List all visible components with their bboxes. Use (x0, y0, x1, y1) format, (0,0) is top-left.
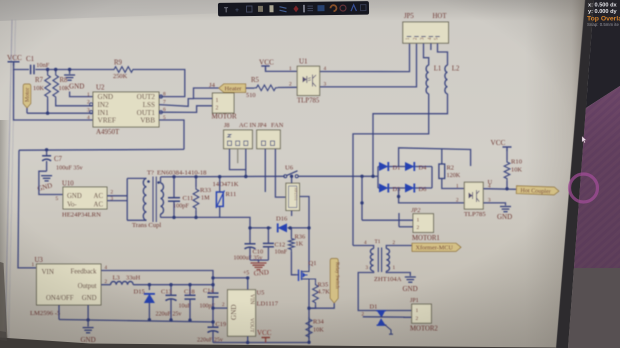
wire (363, 316, 412, 319)
bottom dark bezel edge (0, 262, 8, 348)
wire (386, 271, 410, 276)
wire (353, 94, 429, 246)
wire (244, 149, 247, 179)
svg-text:x: 0.500 dx: x: 0.500 dx (588, 3, 617, 9)
wire (362, 219, 413, 221)
resistor R5 (246, 77, 298, 99)
wire (309, 279, 316, 283)
regulator U3 LM2596 (30, 257, 108, 317)
capacitor C7 (42, 148, 83, 171)
transistor Q1 (296, 260, 317, 282)
op-amp U2 A4950T (87, 84, 166, 137)
wire (386, 246, 412, 249)
diode D15 (134, 285, 155, 322)
wire (127, 219, 146, 221)
wire (126, 178, 128, 220)
wire (161, 175, 285, 178)
mouse cursor (582, 136, 586, 143)
net flag Xformer-MCU (412, 243, 461, 251)
inductor L1 (426, 65, 441, 94)
wire (159, 120, 184, 149)
wire (230, 149, 246, 170)
inductor L3 (111, 275, 141, 285)
triac D1 (362, 303, 394, 334)
purple knob circle (570, 174, 598, 202)
wire (18, 150, 37, 268)
wire (101, 284, 111, 286)
wire (211, 303, 227, 310)
wire (211, 271, 249, 290)
wire (35, 69, 112, 71)
wire (378, 187, 432, 189)
opto-coupler U7 (286, 175, 309, 268)
wire (248, 226, 310, 229)
capacitor C12 (263, 228, 288, 260)
wire (264, 149, 266, 192)
switch U6 (284, 165, 298, 178)
connector JP5 HOT (403, 13, 449, 43)
inductor L2 (445, 65, 460, 94)
wire (59, 318, 215, 324)
wire (377, 167, 379, 189)
wire (14, 70, 94, 121)
wire (483, 203, 505, 206)
wire (360, 201, 363, 220)
net flag Heater (219, 84, 246, 93)
floating toolbar (218, 1, 369, 16)
wire (247, 336, 249, 342)
transformer T1 ZHT104A (364, 239, 402, 283)
connector J4 MOTOR (194, 82, 237, 121)
wire (58, 305, 60, 320)
wire (399, 213, 413, 227)
diode D16 (276, 216, 288, 233)
resistor R10 (504, 159, 522, 189)
wire (19, 148, 184, 151)
wire (378, 166, 432, 168)
wire (27, 112, 93, 115)
net flag Motor (23, 84, 31, 113)
wire (101, 271, 213, 294)
resistor R36 (289, 228, 306, 275)
connector JP4 FAN (257, 122, 284, 149)
diode D1 (379, 162, 400, 172)
connector JP1 MOTOR2 (410, 298, 438, 333)
wire (133, 283, 215, 286)
svg-text:Snap: 0.5mm ite: Snap: 0.5mm ite (587, 22, 620, 27)
wire (320, 43, 417, 87)
wire (159, 106, 212, 113)
wire (237, 149, 239, 164)
power VCC (U1) (259, 59, 297, 72)
right side: monitor bezel and background (556, 0, 594, 348)
resistor R34 (306, 317, 324, 344)
wire (308, 282, 310, 342)
wire (250, 260, 268, 262)
wire (135, 70, 185, 97)
resistor R2 120K (439, 149, 464, 189)
net flag Hot Coupler (516, 186, 559, 196)
connector J8 AC IN (224, 122, 257, 149)
capacitor C1 (26, 55, 50, 74)
capacitor C13 (156, 285, 182, 322)
wire (107, 195, 127, 197)
wire (39, 171, 63, 202)
wire (397, 188, 464, 203)
power VCC (top-left) (7, 54, 22, 66)
chip U10 HE24P34LRN (62, 181, 114, 219)
wire (159, 99, 194, 107)
wire (399, 148, 471, 167)
resistor R7 (33, 68, 50, 113)
wire (107, 200, 127, 202)
transformer T? EN60384-1410-18 (132, 169, 207, 229)
diode D6 (405, 184, 426, 194)
wire (127, 177, 146, 179)
svg-text:+: + (235, 7, 239, 14)
wire (361, 176, 363, 203)
ground (U8) (497, 207, 512, 222)
svg-text:y: 0.000 dy: y: 0.000 dy (588, 9, 617, 15)
HUD text (587, 3, 620, 28)
capacitor C18 (179, 285, 196, 322)
wire (161, 217, 251, 243)
wire (275, 149, 286, 197)
ground (C10/C12) (251, 263, 270, 278)
capacitor C19 (197, 321, 226, 344)
resistor R9 (112, 60, 135, 81)
wire (358, 271, 412, 310)
wire (373, 94, 448, 177)
ground (C7) (37, 176, 54, 193)
opto-coupler U8 TLP785 (456, 179, 493, 218)
varistor R11 14D471K (213, 175, 239, 217)
wire (431, 167, 433, 189)
regulator U5 LD1117 (228, 290, 279, 337)
power VCC (U5) (257, 329, 272, 343)
wire (430, 43, 432, 50)
wire (438, 43, 448, 65)
wire (250, 227, 272, 229)
ground (U3) (81, 305, 96, 344)
capacitor C14 (200, 287, 219, 327)
net flag Relay Switch (309, 259, 339, 309)
wire (483, 187, 516, 190)
power VCC (R10) (491, 139, 512, 160)
ground (U2 top) (64, 68, 93, 97)
connector JP2 MOTOR1 (411, 208, 440, 242)
wire (353, 246, 374, 249)
wire (213, 341, 309, 344)
capacitor C10 (234, 244, 264, 262)
capacitor C11 (168, 175, 193, 219)
opto-coupler U1 TLP785 (289, 58, 327, 105)
wire (320, 43, 410, 71)
resistor R33 (193, 175, 211, 219)
resistor R8 (53, 68, 93, 106)
diode D4 (405, 162, 427, 172)
ground (T1) (403, 277, 418, 293)
wire (14, 63, 30, 70)
sheet border (5, 20, 16, 348)
resistor R35 (307, 282, 330, 310)
diode D3 (379, 184, 400, 194)
wire (298, 175, 378, 178)
wire (424, 43, 429, 65)
